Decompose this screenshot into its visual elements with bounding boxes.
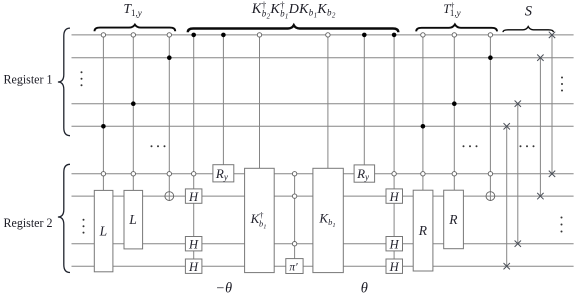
wire column c2 [132,35,134,191]
wire column c8 [363,35,365,165]
control filled c9 q1 [392,33,397,38]
overbrace T1y [95,25,176,32]
svg-text:H: H [188,237,199,251]
control open c11 q5 [452,172,456,176]
cnot target c3 q6 [165,192,174,201]
gate L1 [94,190,113,271]
control open c7 q1 [326,33,330,37]
wire swap column sB [517,104,519,244]
wire column c11 [453,35,455,190]
control open c10 q1 [421,33,425,37]
svg-text:S: S [525,4,533,20]
svg-text:H: H [389,260,400,274]
wire column c5 [222,35,224,165]
control open c9 q5 [392,172,396,176]
svg-text:H: H [389,237,400,251]
svg-text:T†1,y: T†1,y [443,1,460,19]
swap cross sB q3 [515,101,521,107]
wire column cpi [294,174,296,259]
gate H c4 q8 [185,259,202,274]
control filled c11 q3 [452,101,457,106]
control filled c12 q2 [488,55,493,60]
svg-text:−θ: −θ [216,281,233,296]
control open c2 q5 [131,172,135,176]
svg-text:θ: θ [361,281,368,296]
vdots register2 right [561,217,563,233]
control open c1 q5 [101,172,105,176]
swap cross sA q8 [504,263,510,269]
cdots middle left [151,145,166,147]
control open c11 q1 [452,33,456,37]
gate H c4 q6 [185,189,202,204]
brace register2 [58,164,70,272]
control open c10 q5 [421,172,425,176]
swap cross sC q2 [537,55,543,61]
vdots register1 right [561,77,563,92]
svg-text:T1,y: T1,y [124,1,142,18]
svg-text:π′: π′ [289,261,298,273]
svg-text:R: R [448,212,458,227]
vdots register2 left [83,219,85,234]
control filled c4 q1 [191,33,196,38]
wire register1 qubit3 [72,103,574,105]
wire register2 qubit3 [72,243,574,245]
wire swap column sA [506,126,508,266]
wire column c6 [259,35,261,168]
swap cross sC q6 [537,193,543,199]
overbrace K-section [188,25,398,32]
gate L2 [124,190,143,249]
svg-text:K†b2K†b1DKb1Kb2: K†b2K†b1DKb1Kb2 [251,0,336,21]
control open c3 q5 [167,172,171,176]
svg-text:H: H [188,260,199,274]
svg-text:L: L [99,224,108,239]
control filled c1 q4 [101,124,106,129]
gate H c9 q7 [386,237,403,252]
gate H c4 q7 [185,237,202,252]
control open cpi q6 [292,194,296,198]
wire register2 qubit1 [72,173,574,175]
brace register1 [58,28,70,136]
control open c12 q1 [488,33,492,37]
wire column c12 [489,35,491,201]
overbrace T1y-dagger [416,24,497,31]
control filled c5 q1 [221,33,226,38]
svg-text:Register 2: Register 2 [4,216,53,230]
gate H c9 q8 [386,259,403,274]
wire column c10 [422,35,424,190]
gate R1 [413,190,433,271]
svg-text:H: H [389,190,400,204]
control filled c8 q1 [362,33,367,38]
vdots register1 left [81,71,83,86]
cdots middle far-right [520,145,535,147]
swap cross sB q7 [515,241,521,247]
control open c2 q1 [131,33,135,37]
control open cpi q5 [292,172,296,176]
wire register1 qubit2 [72,57,574,59]
gate Ry2 [354,165,375,182]
swap cross sD q5 [549,171,555,177]
svg-text:Register 1: Register 1 [4,73,53,87]
wire column c3 [168,35,170,201]
control filled c10 q4 [421,124,426,129]
wire column c7 [327,35,329,168]
control open c3 q1 [167,33,171,37]
control filled c2 q3 [131,101,136,106]
wire column c4 [193,35,195,266]
svg-text:L: L [128,212,137,227]
wire column c9 [393,35,395,266]
wire register2 qubit2 [72,195,574,197]
control open c6 q1 [257,33,261,37]
control open c12 q5 [488,172,492,176]
gate R2 [444,190,464,249]
control open c1 q1 [101,33,105,37]
wire swap column sC [539,58,541,196]
control filled c3 q2 [167,55,172,60]
wire register2 qubit4 [72,265,574,267]
overbrace S [503,27,553,32]
svg-text:R: R [418,223,428,238]
wire register1 qubit4 [72,125,574,127]
gate H c9 q6 [386,189,403,204]
gate Ry1 [213,165,234,182]
cnot target c12 q6 [486,192,495,201]
control open c4 q5 [192,172,196,176]
gate Kdag_b1 [245,168,275,272]
svg-text:H: H [188,190,199,204]
gate K_b1 [313,168,343,272]
swap cross sD q1 [549,32,555,38]
wire register1 qubit1 [72,34,574,36]
cdots middle right [463,145,478,147]
gate pi-prime [286,259,303,274]
swap cross sA q4 [504,123,510,129]
control open cpi q7 [292,242,296,246]
wire column c1 [102,35,104,191]
wire swap column sD [551,35,553,174]
